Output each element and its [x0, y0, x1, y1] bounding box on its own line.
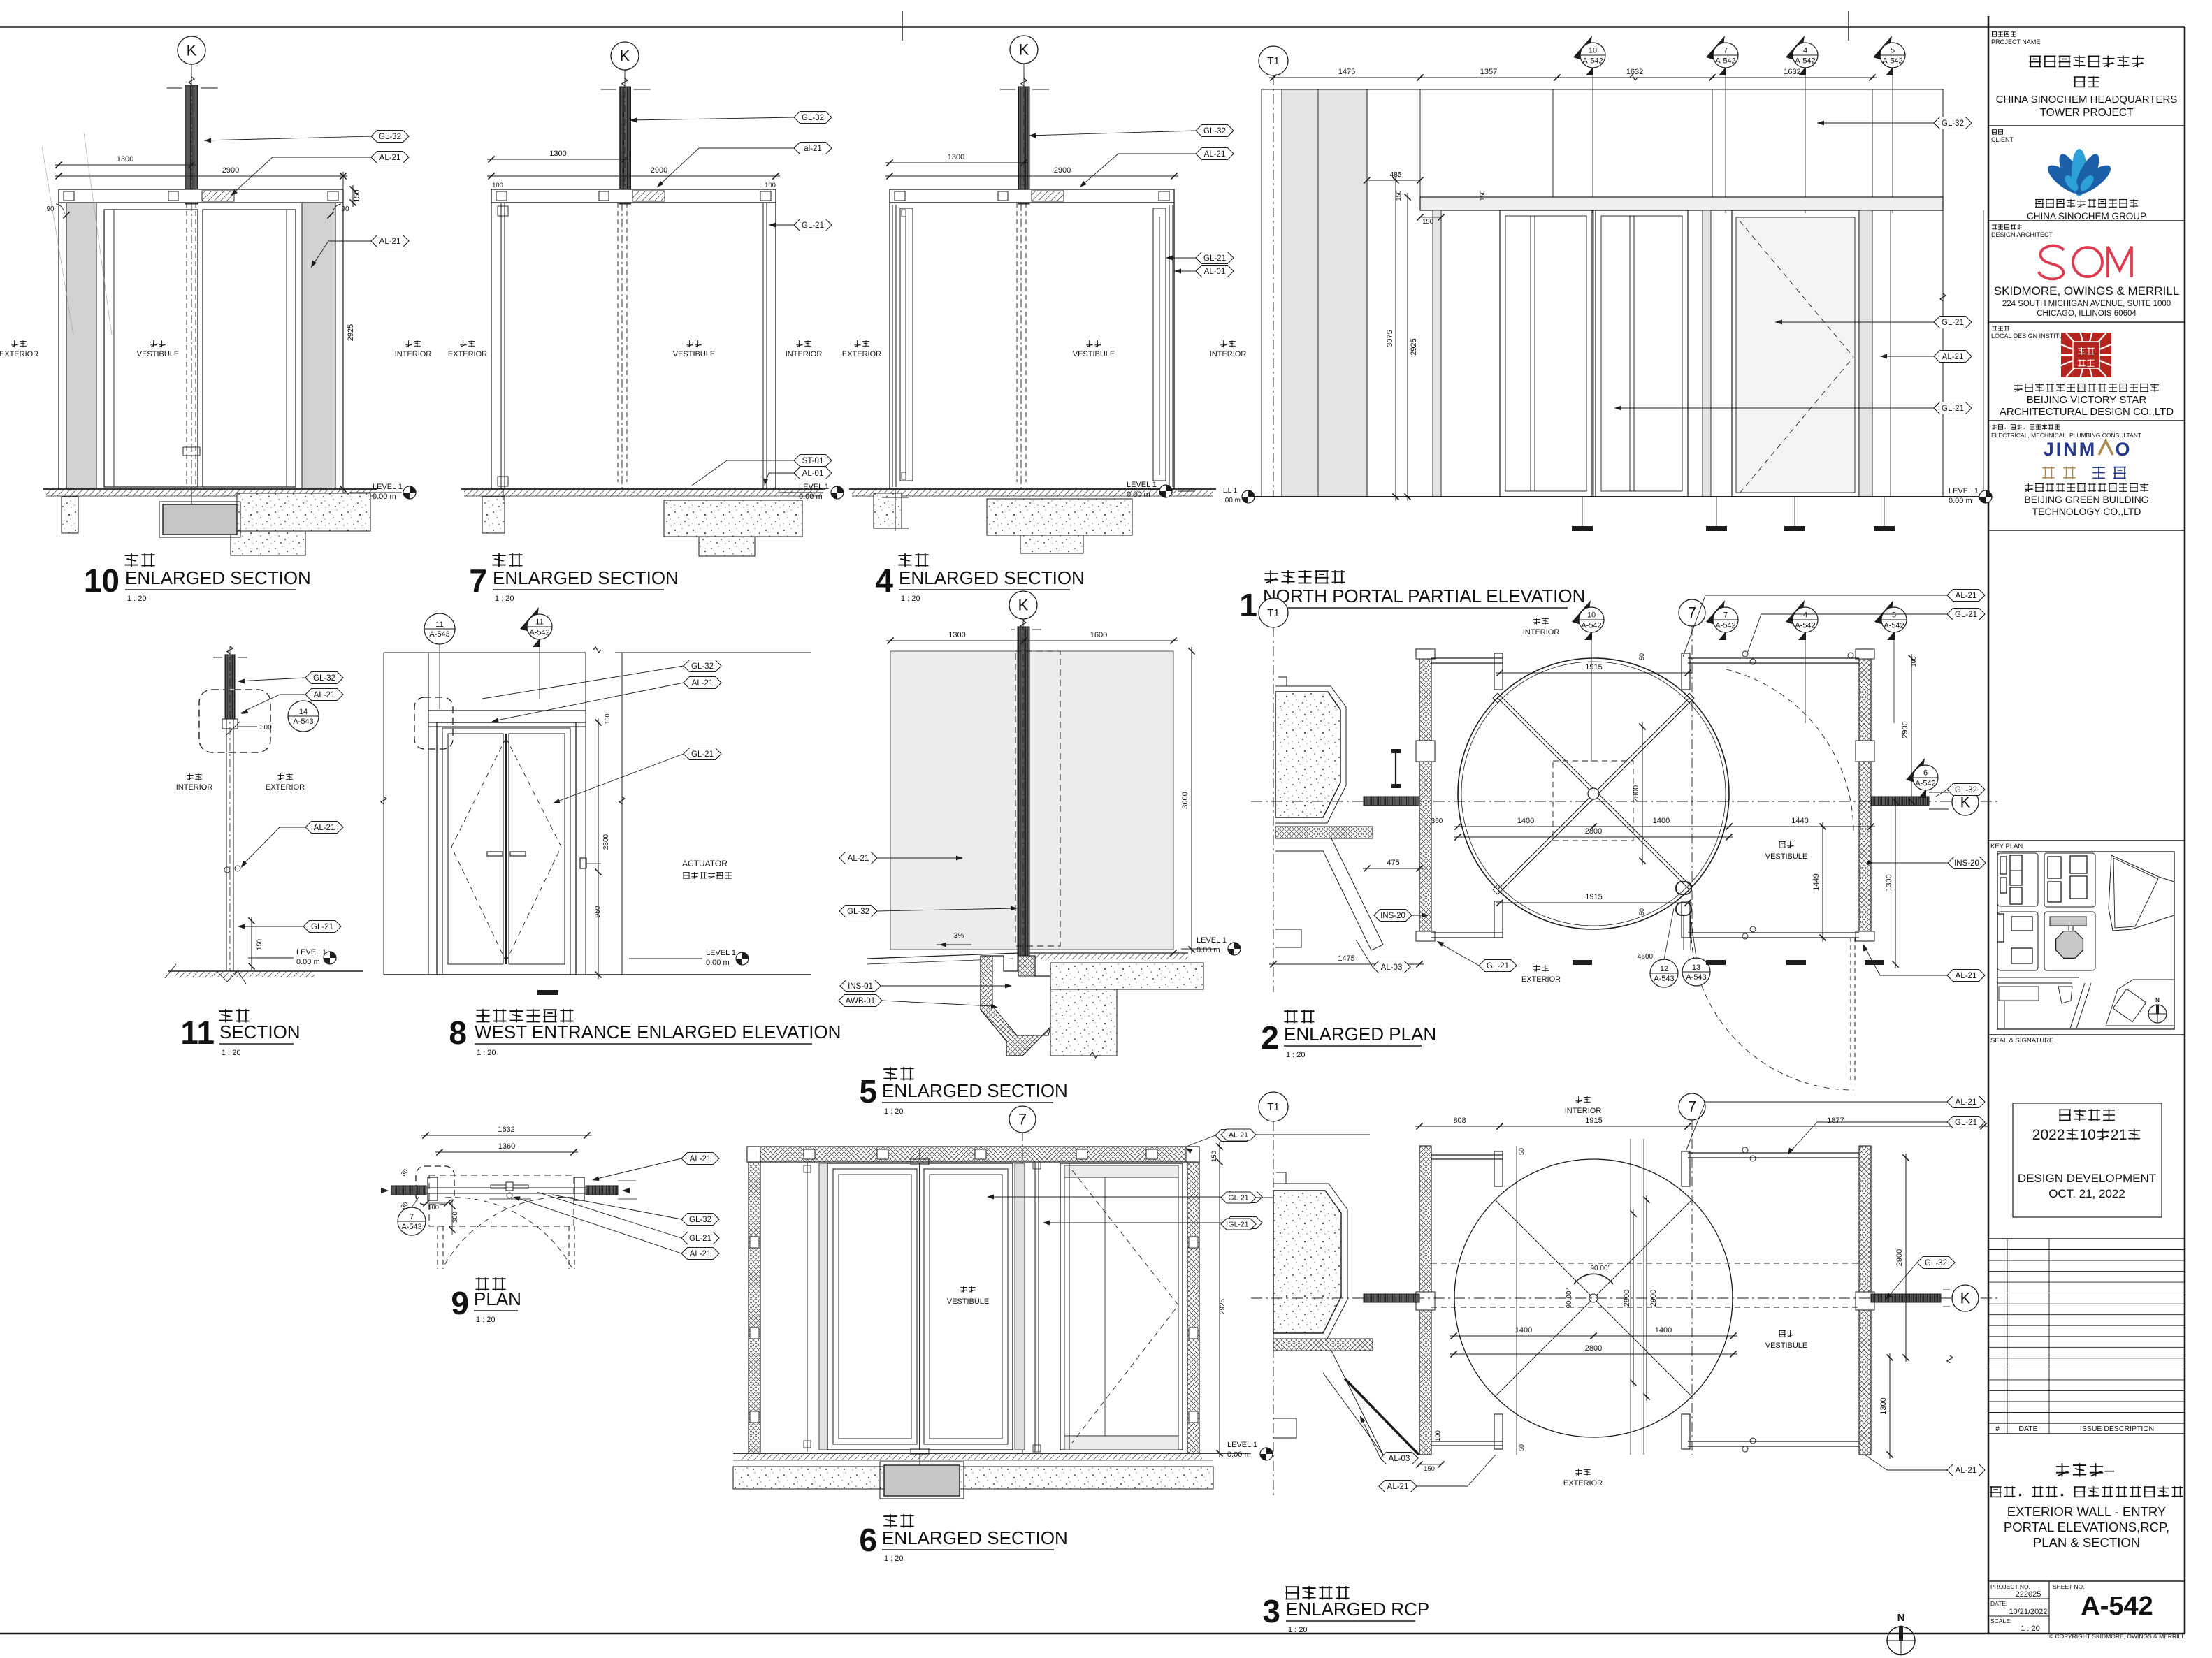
svg-text:A-542: A-542 — [1582, 57, 1603, 66]
svg-text:3000: 3000 — [1181, 792, 1190, 808]
svg-text:GL-21: GL-21 — [689, 1235, 711, 1243]
svg-text:AL-21: AL-21 — [1387, 1483, 1409, 1491]
svg-text:AL-21: AL-21 — [1229, 1131, 1248, 1140]
svg-text:A-542: A-542 — [1581, 622, 1601, 630]
svg-text:AL-21: AL-21 — [1204, 150, 1226, 159]
svg-text:PLAN: PLAN — [474, 1288, 521, 1309]
svg-text:WEST ENTRANCE ENLARGED ELEVATI: WEST ENTRANCE ENLARGED ELEVATION — [475, 1021, 841, 1042]
svg-text:1 : 20: 1 : 20 — [476, 1316, 496, 1324]
svg-text:150: 150 — [1422, 218, 1433, 226]
svg-text:GL-32: GL-32 — [379, 133, 401, 141]
svg-text:LEVEL 1: LEVEL 1 — [1197, 936, 1227, 945]
svg-text:K: K — [187, 42, 197, 59]
svg-text:1 : 20: 1 : 20 — [1286, 1051, 1306, 1059]
svg-text:50: 50 — [1518, 1148, 1525, 1155]
svg-text:2022: 2022 — [2032, 1127, 2065, 1143]
svg-text:100: 100 — [1910, 656, 1917, 667]
svg-text:1440: 1440 — [1791, 817, 1808, 825]
svg-text:1300: 1300 — [948, 631, 965, 639]
svg-text:GL-32: GL-32 — [1203, 127, 1226, 136]
svg-text:INTERIOR: INTERIOR — [1565, 1107, 1602, 1115]
svg-text:14: 14 — [299, 708, 308, 716]
svg-text:BEIJING VICTORY STAR: BEIJING VICTORY STAR — [2027, 394, 2147, 406]
svg-text:A-542: A-542 — [1715, 57, 1735, 66]
svg-text:950: 950 — [594, 906, 602, 917]
svg-text:AL-21: AL-21 — [379, 154, 401, 162]
svg-text:A-542: A-542 — [1795, 622, 1815, 630]
svg-text:300: 300 — [451, 1212, 459, 1223]
svg-text:AL-21: AL-21 — [1956, 972, 1977, 980]
svg-text:INTERIOR: INTERIOR — [786, 350, 823, 358]
svg-text:INTERIOR: INTERIOR — [1210, 350, 1247, 358]
svg-text:2900: 2900 — [222, 166, 239, 175]
svg-text:1 : 20: 1 : 20 — [884, 1107, 904, 1116]
svg-text:1 : 20: 1 : 20 — [2021, 1624, 2040, 1633]
svg-text:1300: 1300 — [1879, 1397, 1888, 1414]
svg-text:50: 50 — [1638, 653, 1645, 660]
svg-text:AL-21: AL-21 — [314, 691, 335, 699]
svg-text:150: 150 — [1210, 1151, 1218, 1162]
svg-text:PROJECT NAME: PROJECT NAME — [1991, 38, 2040, 45]
svg-text:OCT. 21, 2022: OCT. 21, 2022 — [2048, 1187, 2125, 1200]
svg-text:7: 7 — [1723, 611, 1728, 620]
svg-text:SEAL & SIGNATURE: SEAL & SIGNATURE — [1990, 1037, 2053, 1045]
svg-text:INTERIOR: INTERIOR — [395, 350, 432, 358]
svg-text:LEVEL 1: LEVEL 1 — [1227, 1441, 1257, 1449]
svg-text:ENLARGED RCP: ENLARGED RCP — [1286, 1599, 1429, 1620]
svg-text:EXTERIOR: EXTERIOR — [0, 350, 38, 358]
svg-text:10: 10 — [1589, 47, 1597, 55]
svg-text:A-542: A-542 — [1884, 622, 1904, 630]
svg-text:N: N — [1897, 1612, 1905, 1624]
svg-text:7: 7 — [1688, 1098, 1696, 1116]
svg-text:SHEET NO.: SHEET NO. — [2053, 1583, 2085, 1590]
svg-text:K: K — [1018, 597, 1029, 614]
svg-text:1632: 1632 — [498, 1126, 514, 1134]
svg-text:90.00°: 90.00° — [1590, 1265, 1610, 1272]
svg-text:GL-32: GL-32 — [691, 662, 714, 671]
svg-text:90.00°: 90.00° — [1566, 1288, 1573, 1308]
svg-text:GL-21: GL-21 — [1203, 254, 1226, 263]
svg-text:PORTAL ELEVATIONS,RCP,: PORTAL ELEVATIONS,RCP, — [2004, 1520, 2169, 1534]
svg-text:AL-21: AL-21 — [690, 1250, 711, 1258]
svg-text:K: K — [1960, 1290, 1971, 1307]
svg-text:7: 7 — [1018, 1111, 1027, 1128]
svg-text:AL-03: AL-03 — [1389, 1455, 1410, 1463]
svg-text:1915: 1915 — [1585, 1117, 1602, 1125]
svg-text:ENLARGED SECTION: ENLARGED SECTION — [899, 567, 1085, 588]
svg-text:GL-32: GL-32 — [802, 114, 824, 122]
svg-text:2900: 2900 — [1901, 721, 1909, 738]
svg-text:1 : 20: 1 : 20 — [901, 595, 920, 603]
svg-text:INS-20: INS-20 — [1954, 859, 1979, 868]
svg-text:1400: 1400 — [1655, 1326, 1672, 1335]
svg-text:1915: 1915 — [1585, 663, 1602, 671]
svg-text:9: 9 — [451, 1285, 469, 1321]
svg-text:21: 21 — [2111, 1127, 2127, 1143]
svg-text:GL-21: GL-21 — [311, 923, 333, 931]
svg-text:GL-21: GL-21 — [802, 221, 824, 230]
svg-text:475: 475 — [1387, 859, 1399, 867]
svg-text:1 : 20: 1 : 20 — [1288, 1626, 1308, 1634]
svg-text:CHINA SINOCHEM HEADQUARTERS: CHINA SINOCHEM HEADQUARTERS — [1996, 94, 2178, 106]
svg-text:90: 90 — [46, 205, 55, 213]
svg-text:EXTERIOR: EXTERIOR — [1563, 1479, 1603, 1488]
svg-text:AL-21: AL-21 — [690, 1155, 711, 1163]
svg-text:ENLARGED SECTION: ENLARGED SECTION — [882, 1080, 1068, 1101]
svg-text:2800: 2800 — [1623, 1290, 1631, 1307]
svg-text:A-543: A-543 — [293, 718, 313, 726]
svg-text:TECHNOLOGY CO.,LTD: TECHNOLOGY CO.,LTD — [2032, 506, 2141, 517]
svg-text:1475: 1475 — [1338, 954, 1354, 963]
svg-text:LEVEL 1: LEVEL 1 — [706, 949, 736, 957]
svg-text:AL-01: AL-01 — [1204, 268, 1226, 276]
svg-text:T1: T1 — [1267, 607, 1280, 619]
svg-text:INTERIOR: INTERIOR — [1523, 628, 1560, 637]
svg-text:GL-32: GL-32 — [1942, 119, 1964, 128]
svg-text:AL-03: AL-03 — [1381, 963, 1403, 972]
svg-text:AL-01: AL-01 — [802, 470, 824, 478]
svg-text:GL-32: GL-32 — [689, 1216, 711, 1224]
svg-text:1300: 1300 — [948, 153, 964, 161]
svg-text:6: 6 — [1923, 769, 1928, 778]
svg-text:1915: 1915 — [1585, 893, 1602, 901]
svg-text:EXTERIOR: EXTERIOR — [1521, 975, 1561, 984]
svg-text:LEVEL 1: LEVEL 1 — [1127, 481, 1157, 489]
svg-text:10: 10 — [1587, 611, 1596, 620]
svg-text:GL-32: GL-32 — [313, 674, 335, 683]
svg-text:300: 300 — [260, 724, 272, 732]
svg-text:222025: 222025 — [2016, 1590, 2041, 1599]
svg-text:3075: 3075 — [1386, 330, 1394, 347]
svg-text:360: 360 — [1431, 817, 1443, 825]
svg-text:5: 5 — [1892, 611, 1896, 620]
svg-text:4: 4 — [1803, 611, 1807, 620]
svg-text:VESTIBULE: VESTIBULE — [673, 350, 716, 358]
svg-text:1 : 20: 1 : 20 — [884, 1555, 904, 1563]
svg-text:0.00 m: 0.00 m — [799, 493, 823, 501]
svg-text:13: 13 — [1692, 963, 1700, 972]
svg-text:SECTION: SECTION — [219, 1021, 301, 1042]
svg-text:1632: 1632 — [1626, 68, 1643, 76]
svg-text:PLAN & SECTION: PLAN & SECTION — [2033, 1535, 2140, 1550]
svg-text:VESTIBULE: VESTIBULE — [1765, 852, 1808, 861]
svg-text:1632: 1632 — [1784, 68, 1800, 76]
svg-text:AL-21: AL-21 — [314, 824, 335, 832]
svg-text:1877: 1877 — [1827, 1117, 1844, 1125]
svg-text:–: – — [2105, 1461, 2115, 1480]
svg-text:DESIGN ARCHITECT: DESIGN ARCHITECT — [1991, 231, 2053, 238]
svg-text:A-542: A-542 — [1915, 780, 1935, 788]
svg-text:VESTIBULE: VESTIBULE — [1073, 350, 1115, 358]
svg-text:1357: 1357 — [1480, 68, 1497, 76]
svg-text:A-542: A-542 — [1795, 57, 1815, 66]
svg-text:O: O — [2115, 439, 2130, 460]
svg-text:A-543: A-543 — [429, 630, 449, 639]
svg-text:GL-32: GL-32 — [847, 908, 869, 916]
svg-text:GL-21: GL-21 — [1942, 319, 1964, 327]
svg-text:1300: 1300 — [117, 155, 133, 163]
svg-text:11: 11 — [180, 1015, 215, 1051]
svg-text:CLIENT: CLIENT — [1991, 136, 2014, 143]
svg-text:100: 100 — [428, 1204, 439, 1212]
svg-text:ARCHITECTURAL DESIGN CO.,LTD: ARCHITECTURAL DESIGN CO.,LTD — [2000, 406, 2174, 418]
svg-text:10: 10 — [84, 562, 120, 599]
svg-text:DESIGN DEVELOPMENT: DESIGN DEVELOPMENT — [2018, 1172, 2156, 1185]
svg-text:JINM: JINM — [2044, 439, 2097, 460]
svg-text:ACTUATOR: ACTUATOR — [682, 859, 728, 868]
svg-text:AL-21: AL-21 — [848, 855, 869, 863]
svg-text:50: 50 — [1518, 1444, 1525, 1451]
svg-text:ST-01: ST-01 — [802, 457, 824, 465]
svg-text:4600: 4600 — [1638, 953, 1654, 961]
svg-text:2900: 2900 — [651, 166, 667, 175]
svg-text:LEVEL 1: LEVEL 1 — [799, 483, 829, 491]
svg-text:2900: 2900 — [1649, 1290, 1658, 1307]
svg-text:ENLARGED SECTION: ENLARGED SECTION — [493, 567, 679, 588]
svg-text:150: 150 — [256, 939, 263, 950]
svg-text:AL-21: AL-21 — [1956, 592, 1977, 600]
svg-text:AL-21: AL-21 — [1956, 1098, 1977, 1107]
svg-text:2800: 2800 — [1632, 785, 1640, 802]
svg-text:K: K — [1019, 41, 1029, 59]
svg-text:0.00 m: 0.00 m — [296, 958, 320, 966]
svg-text:6: 6 — [859, 1522, 877, 1558]
svg-text:3: 3 — [1262, 1593, 1280, 1629]
svg-text:© COPYRIGHT SKIDMORE, OWINGS &: © COPYRIGHT SKIDMORE, OWINGS & MERRILL — [2049, 1633, 2185, 1640]
svg-text:BEIJING GREEN BUILDING: BEIJING GREEN BUILDING — [2024, 494, 2148, 505]
svg-text:GL-21: GL-21 — [1228, 1194, 1248, 1202]
svg-text:5: 5 — [859, 1073, 877, 1110]
svg-text:7: 7 — [1723, 47, 1728, 55]
svg-text:A-542: A-542 — [2081, 1592, 2153, 1621]
svg-text:2800: 2800 — [1585, 827, 1602, 836]
svg-text:GL-21: GL-21 — [691, 750, 714, 759]
svg-text:KEY PLAN: KEY PLAN — [1990, 843, 2023, 850]
svg-text:LEVEL 1: LEVEL 1 — [1949, 487, 1979, 495]
svg-text:VESTIBULE: VESTIBULE — [137, 350, 180, 358]
svg-text:EL 1: EL 1 — [1223, 487, 1238, 495]
svg-text:1: 1 — [1239, 587, 1257, 623]
svg-text:EXTERIOR: EXTERIOR — [448, 350, 487, 358]
svg-text:1400: 1400 — [1515, 1326, 1532, 1335]
svg-text:50: 50 — [1638, 908, 1645, 915]
svg-text:150: 150 — [1424, 1465, 1435, 1473]
svg-text:5: 5 — [1891, 47, 1895, 55]
svg-text:ENLARGED SECTION: ENLARGED SECTION — [125, 567, 311, 588]
svg-text:1449: 1449 — [1812, 873, 1821, 890]
svg-text:2800: 2800 — [1585, 1344, 1602, 1353]
svg-text:CHICAGO, ILLINOIS 60604: CHICAGO, ILLINOIS 60604 — [2037, 310, 2137, 318]
svg-text:0.00 m: 0.00 m — [706, 959, 730, 967]
svg-text:100: 100 — [765, 182, 776, 189]
svg-text:1300: 1300 — [549, 150, 566, 158]
svg-text:7: 7 — [410, 1213, 414, 1221]
svg-text:ENLARGED PLAN: ENLARGED PLAN — [1284, 1024, 1436, 1045]
svg-text:1300: 1300 — [1885, 874, 1893, 891]
svg-text:0.00 m: 0.00 m — [1227, 1450, 1251, 1459]
svg-text:4: 4 — [1803, 47, 1807, 55]
svg-text:K: K — [1960, 794, 1971, 811]
svg-text:EXTERIOR: EXTERIOR — [266, 783, 305, 792]
svg-text:0.00 m: 0.00 m — [1197, 946, 1220, 954]
svg-text:0.00 m: 0.00 m — [373, 493, 396, 501]
svg-text:INS-01: INS-01 — [848, 982, 873, 991]
svg-text:GL-21: GL-21 — [1942, 405, 1964, 413]
svg-text:GL-21: GL-21 — [1955, 1119, 1977, 1127]
svg-text:1400: 1400 — [1653, 817, 1670, 825]
svg-text:2925: 2925 — [1219, 1298, 1227, 1314]
svg-text:4: 4 — [875, 562, 893, 599]
svg-text:DATE:: DATE: — [1990, 1600, 2007, 1607]
svg-text:AL-21: AL-21 — [379, 238, 401, 246]
svg-text:al-21: al-21 — [804, 145, 822, 153]
svg-text:PROJECT NO.: PROJECT NO. — [1990, 1583, 2030, 1590]
svg-text:7: 7 — [1688, 604, 1696, 622]
svg-text:100: 100 — [604, 713, 611, 724]
svg-text:.00 m: .00 m — [1223, 497, 1241, 504]
svg-text:150: 150 — [1479, 190, 1486, 201]
svg-text:10/21/2022: 10/21/2022 — [2009, 1608, 2047, 1616]
svg-text:A-543: A-543 — [1686, 973, 1706, 982]
svg-text:2: 2 — [1261, 1019, 1279, 1056]
svg-text:0.00 m: 0.00 m — [1127, 490, 1150, 499]
svg-text:T1: T1 — [1267, 1101, 1280, 1113]
svg-text:SCALE:: SCALE: — [1990, 1617, 2011, 1624]
svg-text:1600: 1600 — [1090, 631, 1107, 639]
svg-text:A-542: A-542 — [529, 629, 549, 637]
svg-text:0.00 m: 0.00 m — [1949, 497, 1972, 505]
svg-text:1 : 20: 1 : 20 — [477, 1049, 496, 1057]
svg-text:A-543: A-543 — [401, 1223, 421, 1231]
svg-text:808: 808 — [1453, 1117, 1466, 1125]
svg-text:A-542: A-542 — [1882, 57, 1902, 66]
svg-text:DATE: DATE — [2018, 1425, 2037, 1433]
svg-text:10: 10 — [2080, 1127, 2096, 1143]
svg-text:2925: 2925 — [347, 324, 355, 341]
svg-text:EXTERIOR: EXTERIOR — [842, 350, 881, 358]
svg-text:AL-21: AL-21 — [692, 679, 714, 688]
svg-text:LOCAL DESIGN INSTITUTE: LOCAL DESIGN INSTITUTE — [1991, 333, 2072, 340]
svg-text:3%: 3% — [954, 932, 964, 940]
svg-text:GL-21: GL-21 — [1487, 962, 1509, 970]
svg-text:A-543: A-543 — [1654, 975, 1674, 983]
svg-text:2300: 2300 — [602, 834, 610, 850]
svg-text:T1: T1 — [1267, 55, 1280, 67]
svg-text:K: K — [620, 48, 630, 65]
svg-text:12: 12 — [1660, 965, 1668, 973]
svg-text:A-542: A-542 — [1715, 622, 1735, 630]
svg-text:100: 100 — [492, 182, 503, 189]
svg-text:224 SOUTH MICHIGAN AVENUE, SUI: 224 SOUTH MICHIGAN AVENUE, SUITE 1000 — [2002, 300, 2171, 308]
svg-text:GL-21: GL-21 — [1228, 1221, 1248, 1229]
svg-text:2900: 2900 — [1895, 1249, 1904, 1266]
svg-text:AWB-01: AWB-01 — [846, 997, 875, 1005]
svg-text:ISSUE DESCRIPTION: ISSUE DESCRIPTION — [2080, 1425, 2154, 1433]
svg-text:ELECTRICAL, MECHNICAL, PLUMBIN: ELECTRICAL, MECHNICAL, PLUMBING CONSULTA… — [1991, 432, 2141, 439]
svg-text:EXTERIOR WALL - ENTRY: EXTERIOR WALL - ENTRY — [2007, 1504, 2167, 1519]
svg-text:LEVEL 1: LEVEL 1 — [373, 483, 403, 491]
svg-text:SKIDMORE, OWINGS & MERRILL: SKIDMORE, OWINGS & MERRILL — [1994, 284, 2179, 298]
svg-text:8: 8 — [449, 1015, 467, 1051]
svg-text:ENLARGED SECTION: ENLARGED SECTION — [882, 1527, 1068, 1548]
svg-text:11: 11 — [435, 620, 443, 629]
svg-text:1 : 20: 1 : 20 — [127, 595, 147, 603]
svg-text:2925: 2925 — [1410, 338, 1418, 355]
svg-text:2900: 2900 — [1054, 166, 1071, 175]
svg-text:11: 11 — [535, 618, 543, 627]
svg-text:1475: 1475 — [1338, 68, 1355, 76]
svg-text:1360: 1360 — [498, 1142, 515, 1151]
svg-text:150: 150 — [1395, 190, 1402, 201]
svg-text:GL-32: GL-32 — [1925, 1259, 1947, 1267]
svg-text:GL-21: GL-21 — [1955, 611, 1977, 619]
svg-text:1400: 1400 — [1517, 817, 1534, 825]
svg-text:VESTIBULE: VESTIBULE — [1765, 1341, 1808, 1350]
svg-text:NORTH PORTAL PARTIAL ELEVATION: NORTH PORTAL PARTIAL ELEVATION — [1263, 586, 1585, 606]
svg-text:#: # — [1995, 1425, 2000, 1433]
svg-text:LEVEL 1: LEVEL 1 — [296, 948, 326, 957]
svg-text:CHINA SINOCHEM GROUP: CHINA SINOCHEM GROUP — [2027, 211, 2146, 221]
svg-text:INS-20: INS-20 — [1380, 912, 1405, 920]
svg-text:100: 100 — [1434, 1430, 1442, 1441]
svg-text:90: 90 — [341, 205, 349, 213]
svg-text:AL-21: AL-21 — [1942, 353, 1964, 361]
svg-text:1 : 20: 1 : 20 — [222, 1049, 241, 1057]
svg-text:N: N — [2155, 997, 2160, 1003]
svg-text:TOWER PROJECT: TOWER PROJECT — [2039, 107, 2134, 119]
svg-text:VESTIBULE: VESTIBULE — [947, 1297, 990, 1306]
svg-text:INTERIOR: INTERIOR — [176, 783, 213, 792]
svg-text:7: 7 — [469, 562, 487, 599]
svg-text:150: 150 — [353, 189, 361, 202]
svg-text:GL-32: GL-32 — [1955, 786, 1977, 794]
svg-text:1 : 20: 1 : 20 — [495, 595, 514, 603]
svg-text:AL-21: AL-21 — [1956, 1467, 1977, 1475]
